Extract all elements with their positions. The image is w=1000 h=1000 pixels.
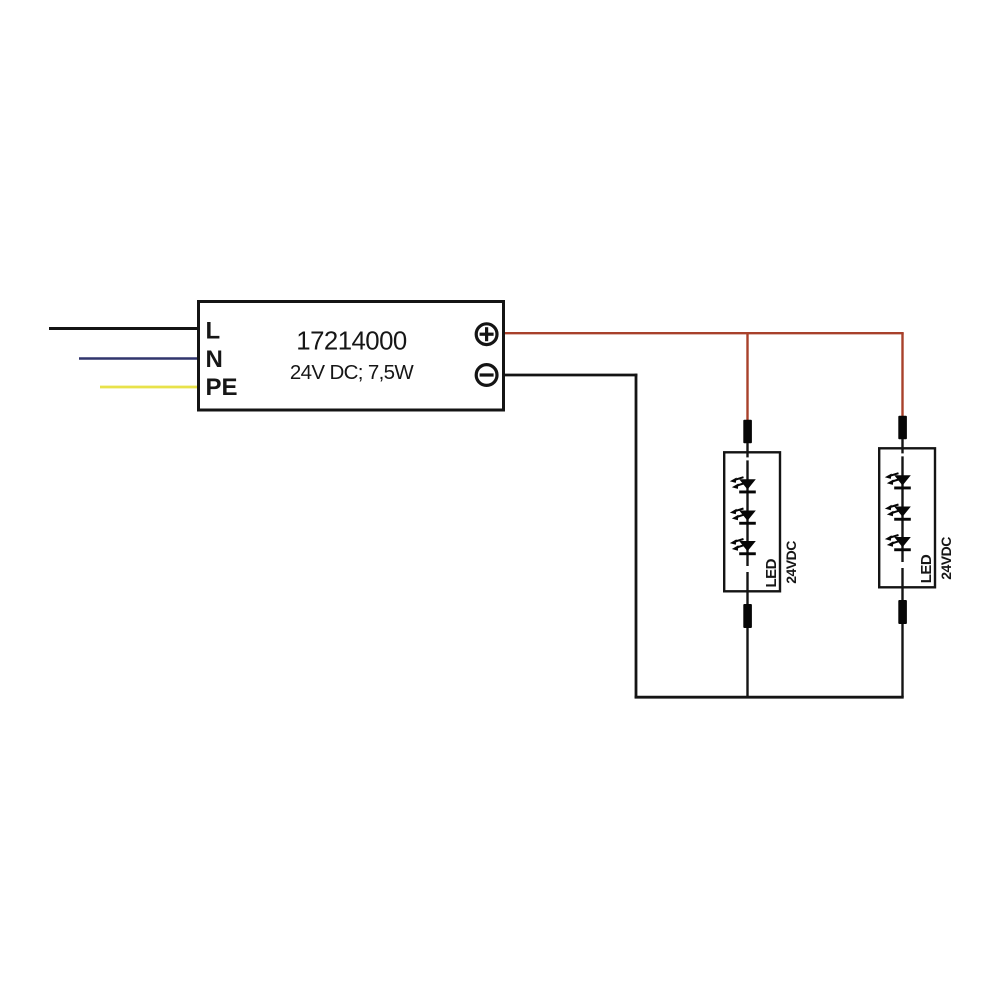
connector pin LED1 top [743, 420, 752, 443]
svg-text:N: N [206, 346, 223, 373]
wire LED2 internal top [901, 448, 903, 453]
svg-text:LED: LED [763, 558, 780, 587]
wire LED1 pin to box [746, 443, 748, 453]
wire LED2 internal main [901, 456, 903, 562]
LED module LED1 box [724, 452, 780, 591]
wire PE (yellow earth input) [100, 386, 198, 389]
wire - vertical down [635, 374, 638, 699]
svg-text:LED: LED [918, 554, 935, 583]
wire L (black mains input) [49, 327, 198, 330]
wire LED1 internal main [746, 460, 748, 566]
LED module LED2 box [879, 448, 935, 587]
wire N (blue neutral input) [79, 357, 198, 360]
svg-text:L: L [206, 318, 221, 345]
wire LED2 return [901, 624, 903, 697]
svg-text:24VDC: 24VDC [783, 541, 799, 584]
power supply U1 (driver box) [199, 302, 504, 411]
wire LED2 pin to box [901, 439, 903, 449]
wire LED1 return [746, 628, 748, 697]
svg-text:PE: PE [206, 374, 238, 401]
LED D3 [730, 539, 756, 555]
connector pin LED2 top [898, 416, 907, 439]
LED D5 [885, 505, 911, 521]
terminal + [476, 324, 497, 345]
wire red drop to LED2 [901, 333, 903, 416]
connector pin LED2 bottom [898, 600, 907, 624]
svg-text:17214000: 17214000 [296, 328, 407, 356]
LED D1 [730, 477, 756, 493]
wire LED1 internal top [746, 452, 748, 457]
LED D4 [885, 473, 911, 489]
wire - output horizontal [505, 374, 637, 377]
wire - bottom bus [635, 696, 904, 699]
svg-text:24VDC: 24VDC [938, 537, 954, 580]
wire LED2 internal bottom [901, 568, 903, 601]
wire LED1 internal bottom [746, 572, 748, 605]
connector pin LED1 bottom [743, 604, 752, 628]
wire red drop to LED1 [746, 333, 748, 420]
terminal - [476, 365, 497, 386]
LED D6 [885, 535, 911, 551]
LED D2 [730, 509, 756, 525]
svg-text:24V DC; 7,5W: 24V DC; 7,5W [290, 361, 415, 384]
wire +24V red horizontal [505, 332, 904, 334]
